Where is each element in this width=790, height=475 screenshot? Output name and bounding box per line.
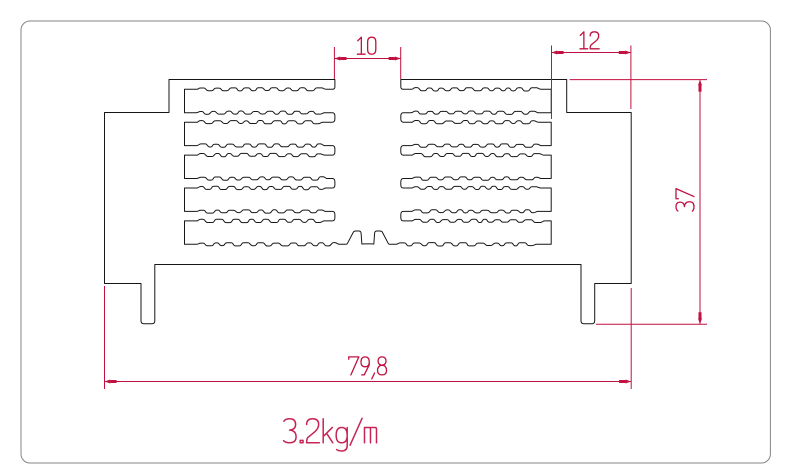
dimension 37: extension lines xyxy=(570,79,707,81)
dimension 12: extension lines xyxy=(551,46,553,120)
dimension 10: dimension line with arrows xyxy=(334,58,400,60)
heatsink profile outline with serrated fins xyxy=(105,80,632,324)
dimension 79,8: text xyxy=(349,357,387,379)
dimension 37: text (rotated) xyxy=(676,189,694,212)
dimension 12: dimension line with arrows xyxy=(552,52,631,54)
dimension 37: dimension line with arrows xyxy=(699,80,701,325)
dimension 12: text xyxy=(580,32,599,49)
dimension 79,8: dimension line with arrows xyxy=(105,381,632,383)
dimension 10: text xyxy=(357,37,375,54)
weight label 3.2kg/m xyxy=(284,418,377,451)
dimension 10: extension lines xyxy=(333,47,335,79)
dimension 79,8: extension lines xyxy=(104,286,106,389)
